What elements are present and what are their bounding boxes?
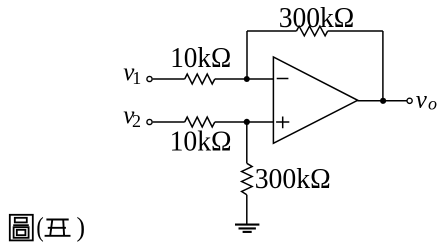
wire node B down to R4 — [246, 122, 248, 163]
svg-text:10kΩ: 10kΩ — [170, 125, 232, 157]
op-amp plus sign — [276, 117, 289, 129]
svg-text:v: v — [416, 87, 428, 114]
wire feedback top right segment — [328, 30, 383, 32]
op-amp U1 — [273, 57, 357, 143]
ground — [235, 225, 259, 232]
terminal vo — [407, 98, 412, 103]
wire R2 to non-inverting input — [215, 121, 274, 123]
svg-text:): ) — [77, 212, 86, 242]
hanzi 五 — [45, 220, 71, 236]
resistor R3 300kΩ (feedback) — [297, 26, 328, 36]
terminal v1 — [147, 76, 152, 81]
svg-text:10kΩ: 10kΩ — [170, 42, 231, 74]
wire feedback top left segment — [247, 30, 297, 32]
svg-text:300kΩ: 300kΩ — [279, 2, 355, 34]
svg-text:300kΩ: 300kΩ — [255, 163, 331, 195]
wire feedback down to output node — [382, 31, 384, 101]
wire R1 to inverting input — [215, 78, 274, 80]
paren ) — [77, 212, 86, 242]
wire op-amp output — [357, 100, 406, 102]
op-amp minus sign — [277, 78, 289, 80]
svg-text:o: o — [428, 93, 437, 113]
terminal v2 — [147, 119, 152, 124]
svg-text:2: 2 — [132, 111, 141, 131]
wire v2 input to resistor R2 — [153, 121, 185, 123]
caption 圖(五) figure label — [10, 212, 85, 242]
junction node A (inverting input) — [244, 76, 250, 82]
hanzi 圖 — [10, 215, 33, 241]
svg-text:(: ( — [36, 213, 43, 243]
junction node B (non-inverting input) — [244, 119, 250, 125]
junction node output — [380, 98, 386, 104]
wire v1 input to resistor R1 — [153, 78, 185, 80]
wire node A up to feedback — [246, 31, 248, 79]
resistor R4 300kΩ (to ground) — [242, 163, 253, 195]
resistor R1 10kΩ (series, v1 row) — [185, 74, 215, 84]
svg-text:1: 1 — [132, 68, 141, 88]
paren ( — [36, 213, 43, 243]
resistor R2 10kΩ (series, v2 row) — [185, 117, 215, 127]
wire R4 to ground — [246, 195, 248, 225]
